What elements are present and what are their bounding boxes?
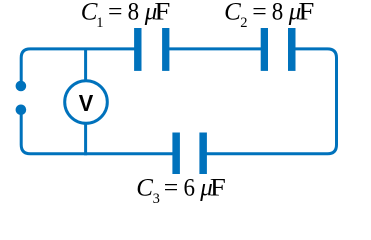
wire: voltmeter branch top xyxy=(84,48,87,84)
node: bottom terminal dot xyxy=(16,105,27,116)
capacitor C2 right plate xyxy=(288,28,296,71)
svg-text:C3=6μF: C3=6μF xyxy=(136,175,226,207)
capacitor C3 left plate xyxy=(172,133,180,175)
wire: between C1 and C2 xyxy=(168,47,262,50)
svg-text:V: V xyxy=(79,90,94,116)
capacitor C1 left plate xyxy=(134,28,141,71)
capacitor C2 left plate xyxy=(261,28,268,71)
capacitor C1 right plate xyxy=(162,28,169,71)
voltmeter V (meter body) xyxy=(65,81,108,124)
svg-text:C1=8μF: C1=8μF xyxy=(81,0,171,31)
capacitor C3 right plate xyxy=(199,133,207,175)
wire: from C3 left, bottom-left corner, up to bottom dot xyxy=(21,110,174,154)
wire: from C2 right, top-right corner, right side, bottom-right corner, left to C3 xyxy=(205,49,337,154)
node: top terminal dot xyxy=(16,81,27,92)
svg-text:C2=8μF: C2=8μF xyxy=(224,0,314,31)
wire: top-left segment (top dot up, corner, right to C1) xyxy=(21,49,137,86)
wire: voltmeter branch bottom xyxy=(84,121,87,155)
